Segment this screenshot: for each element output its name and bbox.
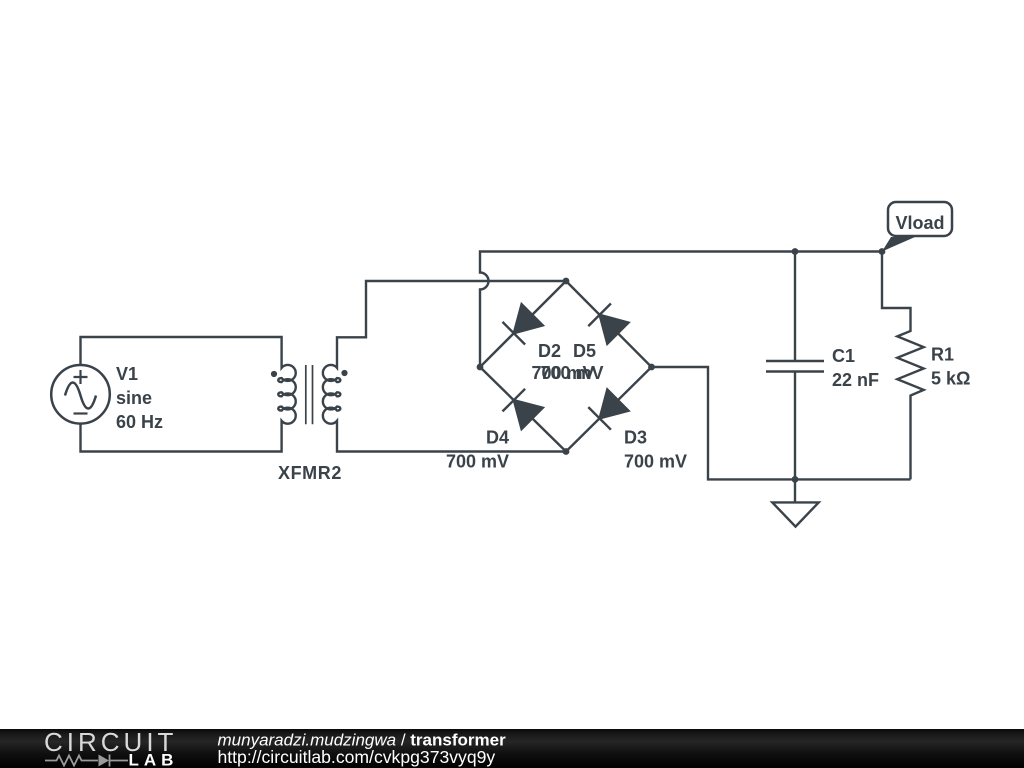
wire top rail with hop riser to bridge left node [480,252,882,368]
bridge edge top-left [480,281,566,367]
voltage source V1 circle [51,365,110,424]
wire primary loop bottom [81,424,282,452]
svg-text:D3: D3 [624,427,647,447]
capacitor C1 plates [766,361,824,372]
svg-text:LAB: LAB [129,751,179,768]
transformer XFMR2 secondary coil [323,364,341,425]
V1 plus sign [74,370,88,384]
svg-text:XFMR2: XFMR2 [278,463,342,483]
diode D3 [588,390,628,430]
Vload flag box [888,202,952,236]
node Vload [879,248,886,255]
bridge edge bottom-left [480,367,566,452]
capacitor C1 bottom lead [794,372,796,480]
svg-text:700 mV: 700 mV [541,363,604,383]
footer logo resistor-diode squiggle [45,755,128,767]
svg-text:V1: V1 [116,364,138,384]
footer bar [0,729,1024,768]
V1 minus sign [74,412,88,414]
wire secondary top to bridge top node [337,281,566,364]
diode D4 [503,389,543,429]
node bridge bottom [563,448,570,455]
diode D5 [588,304,628,344]
bridge edge top-right [566,281,652,367]
node bridge top [563,278,570,285]
wire bridge right node to bottom rail [652,367,911,479]
ground triangle [772,502,818,526]
svg-text:C1: C1 [832,346,855,366]
resistor R1 [882,252,924,480]
svg-text:Vload: Vload [895,213,944,233]
transformer core lines [306,365,313,424]
svg-text:60 Hz: 60 Hz [116,412,163,432]
transformer secondary phase dot [341,370,347,376]
ground stem [794,479,796,502]
diode D2 [503,304,543,344]
node ground [792,476,799,483]
svg-text:sine: sine [116,388,152,408]
capacitor C1 top lead [794,252,796,362]
svg-text:700 mV: 700 mV [446,452,509,472]
svg-text:5 kΩ: 5 kΩ [931,369,970,389]
svg-text:D5: D5 [573,341,596,361]
transformer primary phase dot [271,371,277,377]
V1 sine symbol [65,383,96,409]
transformer XFMR2 primary coil [278,364,296,425]
svg-text:http://circuitlab.com/cvkpg373: http://circuitlab.com/cvkpg373vyq9y [218,747,496,767]
svg-text:700 mV: 700 mV [624,452,687,472]
svg-text:22 nF: 22 nF [832,370,879,390]
svg-text:D4: D4 [486,427,509,447]
node bridge left [477,364,484,371]
node C1 top [792,248,799,255]
Vload flag pointer [882,237,915,252]
svg-text:R1: R1 [931,345,954,365]
svg-text:D2: D2 [538,341,561,361]
bridge edge bottom-right [566,367,652,452]
node bridge right [648,364,655,371]
wire secondary bottom to bridge bottom node [337,425,566,452]
wire primary loop top [81,337,282,365]
